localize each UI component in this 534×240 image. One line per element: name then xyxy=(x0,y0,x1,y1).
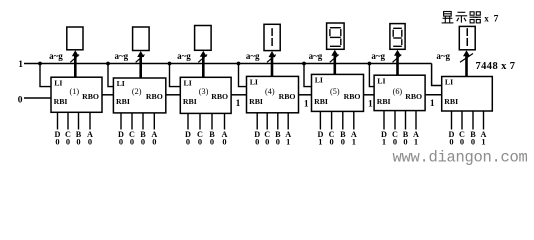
bus-width slash a~g U2 xyxy=(136,55,145,63)
svg-text:a~g: a~g xyxy=(309,51,323,61)
svg-text:0: 0 xyxy=(186,138,190,147)
bus-width slash a~g U6 xyxy=(393,55,402,63)
wires DCBA inputs U6 xyxy=(384,111,416,130)
7-segment display DS2 xyxy=(133,27,150,51)
svg-text:0: 0 xyxy=(330,138,334,147)
7-segment display DS4 xyxy=(264,24,280,50)
svg-text:0: 0 xyxy=(88,138,92,147)
wire a~g segment bus U6 to DS6 xyxy=(396,54,399,76)
wire LT bus drop to U7 LI xyxy=(432,64,442,86)
wire RBO U1 to RBI U2 xyxy=(102,94,113,96)
svg-text:0: 0 xyxy=(276,138,280,147)
7448 decoder U2 (2) xyxy=(113,78,165,113)
arrowhead a~g bus DS4 xyxy=(269,51,276,57)
svg-text:0: 0 xyxy=(403,138,407,147)
svg-text:1: 1 xyxy=(318,138,322,147)
arrowhead a~g bus DS3 xyxy=(200,51,207,57)
svg-text:a~g: a~g xyxy=(371,51,385,61)
bus-width slash a~g U1 xyxy=(70,55,79,63)
svg-text:0: 0 xyxy=(341,138,345,147)
svg-text:RBI: RBI xyxy=(314,97,328,106)
wire logic-0 to U1 RBI xyxy=(24,97,52,99)
bus-width slash a~g U3 xyxy=(198,55,207,63)
wire RBO U4 to RBI U5 xyxy=(299,94,312,96)
wire a~g segment bus U7 to DS7 xyxy=(465,54,468,77)
wire a~g segment bus U1 to DS1 xyxy=(74,54,77,77)
svg-text:RBO: RBO xyxy=(405,92,422,101)
svg-text:0: 0 xyxy=(119,138,123,147)
svg-text:0: 0 xyxy=(198,138,202,147)
wire LT to LI U3 xyxy=(170,64,181,87)
svg-text:1: 1 xyxy=(430,99,435,109)
wire RBO U5 to RBI U6 xyxy=(364,94,375,96)
junction dot LT bus at U5 xyxy=(302,62,306,66)
svg-text:RBO: RBO xyxy=(82,92,99,101)
wire a~g segment bus U4 to DS4 xyxy=(271,55,274,77)
svg-text:RBO: RBO xyxy=(211,92,228,101)
svg-text:(3): (3) xyxy=(199,87,209,96)
7448 decoder U1 (1) xyxy=(51,77,102,112)
svg-text:a~g: a~g xyxy=(115,51,129,61)
svg-text:1: 1 xyxy=(18,60,23,70)
DS4 lit segments digit 1 xyxy=(271,28,273,46)
junction dot LT bus at U1 xyxy=(38,62,42,66)
svg-text:7448 x 7: 7448 x 7 xyxy=(476,61,516,72)
wire RBO U6 to RBI U7 xyxy=(425,94,442,96)
7448 decoder U7 (7) xyxy=(442,77,493,112)
wire LT to LI U2 xyxy=(108,64,113,87)
junction dot LT bus at U4 xyxy=(237,62,241,66)
svg-text:(5): (5) xyxy=(330,87,340,96)
svg-text:0: 0 xyxy=(55,138,59,147)
svg-text:0: 0 xyxy=(471,138,475,147)
svg-text:(6): (6) xyxy=(393,87,403,96)
7448 decoder U5 (5) xyxy=(312,74,364,111)
svg-text:1: 1 xyxy=(368,99,373,109)
arrowhead a~g bus DS6 xyxy=(394,50,401,56)
7-segment display DS7 xyxy=(459,26,475,49)
svg-text:1: 1 xyxy=(414,138,418,147)
7448 decoder U3 (3) xyxy=(180,77,231,113)
arrowhead a~g bus DS1 xyxy=(72,50,79,56)
bus-width slash a~g U7 xyxy=(460,54,473,63)
svg-text:a~g: a~g xyxy=(436,51,450,61)
svg-text:0: 0 xyxy=(460,138,464,147)
svg-text:LI: LI xyxy=(250,78,258,87)
wire LT bus (logic 1 rail) xyxy=(24,63,432,65)
wire LT to LI U4 xyxy=(239,64,247,87)
svg-text:RBI: RBI xyxy=(183,97,197,106)
wires DCBA inputs U7 xyxy=(452,111,484,130)
svg-text:RBI: RBI xyxy=(444,97,458,106)
svg-text:1: 1 xyxy=(352,138,356,147)
svg-text:1: 1 xyxy=(236,99,241,109)
DS6 lit segments digit 9 xyxy=(393,28,402,46)
junction dot LT bus at U3 xyxy=(168,62,172,66)
arrowhead a~g bus DS7 xyxy=(463,50,470,56)
7448 decoder U4 (4) xyxy=(247,76,299,112)
wire LT to LI U5 xyxy=(304,64,312,87)
wires DCBA inputs U5 xyxy=(320,111,353,129)
DS7 lit segments digit 1 xyxy=(466,28,468,46)
junction dot LT bus at U2 xyxy=(106,62,110,66)
svg-text:(4): (4) xyxy=(265,87,275,96)
wires DCBA inputs U1 xyxy=(58,112,91,129)
wires DCBA inputs U3 xyxy=(188,113,225,129)
wire RBO U3 to RBI U4 xyxy=(231,94,246,96)
svg-text:a~g: a~g xyxy=(49,51,63,61)
wire LT to LI U6 xyxy=(369,64,374,87)
7-segment display DS6 xyxy=(390,24,405,50)
7-segment display DS3 xyxy=(195,26,212,51)
wire a~g segment bus U2 to DS2 xyxy=(139,55,142,79)
wire RBO U2 to RBI U3 xyxy=(166,94,181,96)
svg-text:a~g: a~g xyxy=(246,51,260,61)
bus-width slash a~g U5 xyxy=(330,55,339,63)
svg-text:RBI: RBI xyxy=(116,97,130,106)
svg-text:0: 0 xyxy=(152,138,156,147)
svg-text:1: 1 xyxy=(481,138,485,147)
svg-text:LI: LI xyxy=(315,76,323,85)
svg-text:LI: LI xyxy=(54,78,62,87)
arrowhead a~g bus DS5 xyxy=(331,50,338,56)
svg-text:0: 0 xyxy=(393,138,397,147)
svg-text:LI: LI xyxy=(445,78,453,87)
svg-text:7: 7 xyxy=(494,15,499,25)
svg-text:RBI: RBI xyxy=(377,97,391,106)
svg-text:RBO: RBO xyxy=(279,92,296,101)
wire a~g segment bus U5 to DS5 xyxy=(333,54,336,75)
svg-text:0: 0 xyxy=(66,138,70,147)
svg-text:0: 0 xyxy=(76,138,80,147)
svg-text:0: 0 xyxy=(255,138,259,147)
wires DCBA inputs U4 xyxy=(257,113,288,130)
svg-text:0: 0 xyxy=(141,138,145,147)
svg-text:www.diangon.com: www.diangon.com xyxy=(393,149,528,167)
7-segment display DS1 xyxy=(67,27,83,50)
svg-text:LI: LI xyxy=(117,79,125,88)
svg-text:0: 0 xyxy=(210,138,214,147)
7-segment display DS5 xyxy=(327,23,345,49)
svg-text:0: 0 xyxy=(222,138,226,147)
junction dot LT bus at U6 xyxy=(368,62,372,66)
svg-text:LI: LI xyxy=(184,79,192,88)
svg-text:RBO: RBO xyxy=(344,92,361,101)
svg-text:0: 0 xyxy=(265,138,269,147)
svg-text:0: 0 xyxy=(18,96,23,106)
7448 decoder U6 (6) xyxy=(374,75,425,110)
DS5 lit segments digit 9 xyxy=(330,28,341,47)
svg-text:RBI: RBI xyxy=(54,97,68,106)
wire a~g segment bus U3 to DS3 xyxy=(202,55,205,78)
svg-text:x: x xyxy=(484,13,489,23)
svg-text:RBO: RBO xyxy=(146,92,163,101)
svg-text:0: 0 xyxy=(449,138,453,147)
svg-text:a~g: a~g xyxy=(177,51,191,61)
annotation 显示器 x 7 (display x 7) xyxy=(442,12,481,23)
svg-text:(1): (1) xyxy=(70,87,80,96)
svg-text:1: 1 xyxy=(286,138,290,147)
svg-text:1: 1 xyxy=(304,99,309,109)
arrowhead a~g bus DS2 xyxy=(137,51,144,57)
svg-text:0: 0 xyxy=(130,138,134,147)
wire LT to LI U1 xyxy=(40,64,51,87)
svg-text:1: 1 xyxy=(382,138,386,147)
svg-text:(2): (2) xyxy=(132,87,142,96)
bus-width slash a~g U4 xyxy=(267,55,276,63)
wires DCBA inputs U2 xyxy=(121,113,154,130)
svg-text:RBI: RBI xyxy=(249,97,263,106)
svg-text:LI: LI xyxy=(377,76,385,85)
